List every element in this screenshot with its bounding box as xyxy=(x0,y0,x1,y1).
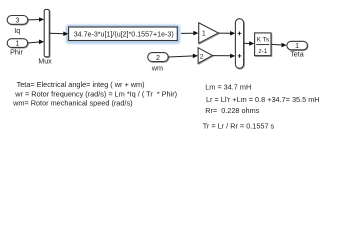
wire Sum to Integrator xyxy=(244,41,254,46)
outport 1 Teta xyxy=(287,41,308,50)
wire Mux to Fcn xyxy=(50,32,69,37)
wire wm to Gain2 xyxy=(168,54,198,59)
svg-text:1: 1 xyxy=(202,30,206,37)
wire Integrator to Teta xyxy=(271,43,286,48)
svg-text:wm: wm xyxy=(151,64,163,73)
svg-text:Mux: Mux xyxy=(38,59,52,66)
svg-text:z-1: z-1 xyxy=(258,48,267,55)
svg-text:Teta= Electrical angle= integ: Teta= Electrical angle= integ ( wr + wm) xyxy=(17,80,145,89)
svg-text:Iq: Iq xyxy=(14,26,20,35)
svg-text:Rr= 0.228 ohms: Rr= 0.228 ohms xyxy=(205,106,259,115)
wire Iq to Mux xyxy=(28,17,44,22)
svg-text:Phir: Phir xyxy=(10,48,23,57)
inport 2 wm xyxy=(148,53,169,63)
svg-text:1: 1 xyxy=(15,41,19,48)
gain block 2 xyxy=(198,48,213,64)
svg-text:34.7e-3*u[1]/(u[2]*0.1557+1e-3: 34.7e-3*u[1]/(u[2]*0.1557+1e-3) xyxy=(74,30,174,38)
sum block xyxy=(235,19,244,69)
wire Fcn to Gain1 xyxy=(181,31,198,36)
Mux block xyxy=(44,9,50,57)
svg-text:2: 2 xyxy=(156,55,160,62)
svg-text:3: 3 xyxy=(15,18,19,25)
wire Gain1 to Sum xyxy=(219,31,236,36)
inport 3 Iq xyxy=(7,16,28,26)
svg-text:Lm = 34.7 mH: Lm = 34.7 mH xyxy=(205,83,251,92)
svg-text:2: 2 xyxy=(200,53,204,60)
svg-text:K Ts: K Ts xyxy=(257,36,269,43)
svg-text:Tr = Lr / Rr = 0.1557 s: Tr = Lr / Rr = 0.1557 s xyxy=(203,121,275,130)
svg-text:Lr = Ll'r +Lm = 0.8 +34.7= 35.: Lr = Ll'r +Lm = 0.8 +34.7= 35.5 mH xyxy=(206,95,320,104)
svg-text:wr = Rotor frequency (rad/s) =: wr = Rotor frequency (rad/s) = Lm *Iq / … xyxy=(14,89,177,98)
discrete-time integrator block K Ts/(z-1) xyxy=(255,33,272,57)
svg-text:wm= Rotor mechanical speed (ra: wm= Rotor mechanical speed (rad/s) xyxy=(12,99,132,108)
svg-text:Teta: Teta xyxy=(290,50,304,59)
Fcn block xyxy=(69,27,178,41)
wire Phir to Mux xyxy=(28,40,44,45)
Fcn block selection halo xyxy=(65,24,181,45)
gain block 1 xyxy=(199,23,220,44)
wire Gain2 to Sum xyxy=(213,54,236,59)
inport 1 Phir xyxy=(7,39,28,48)
